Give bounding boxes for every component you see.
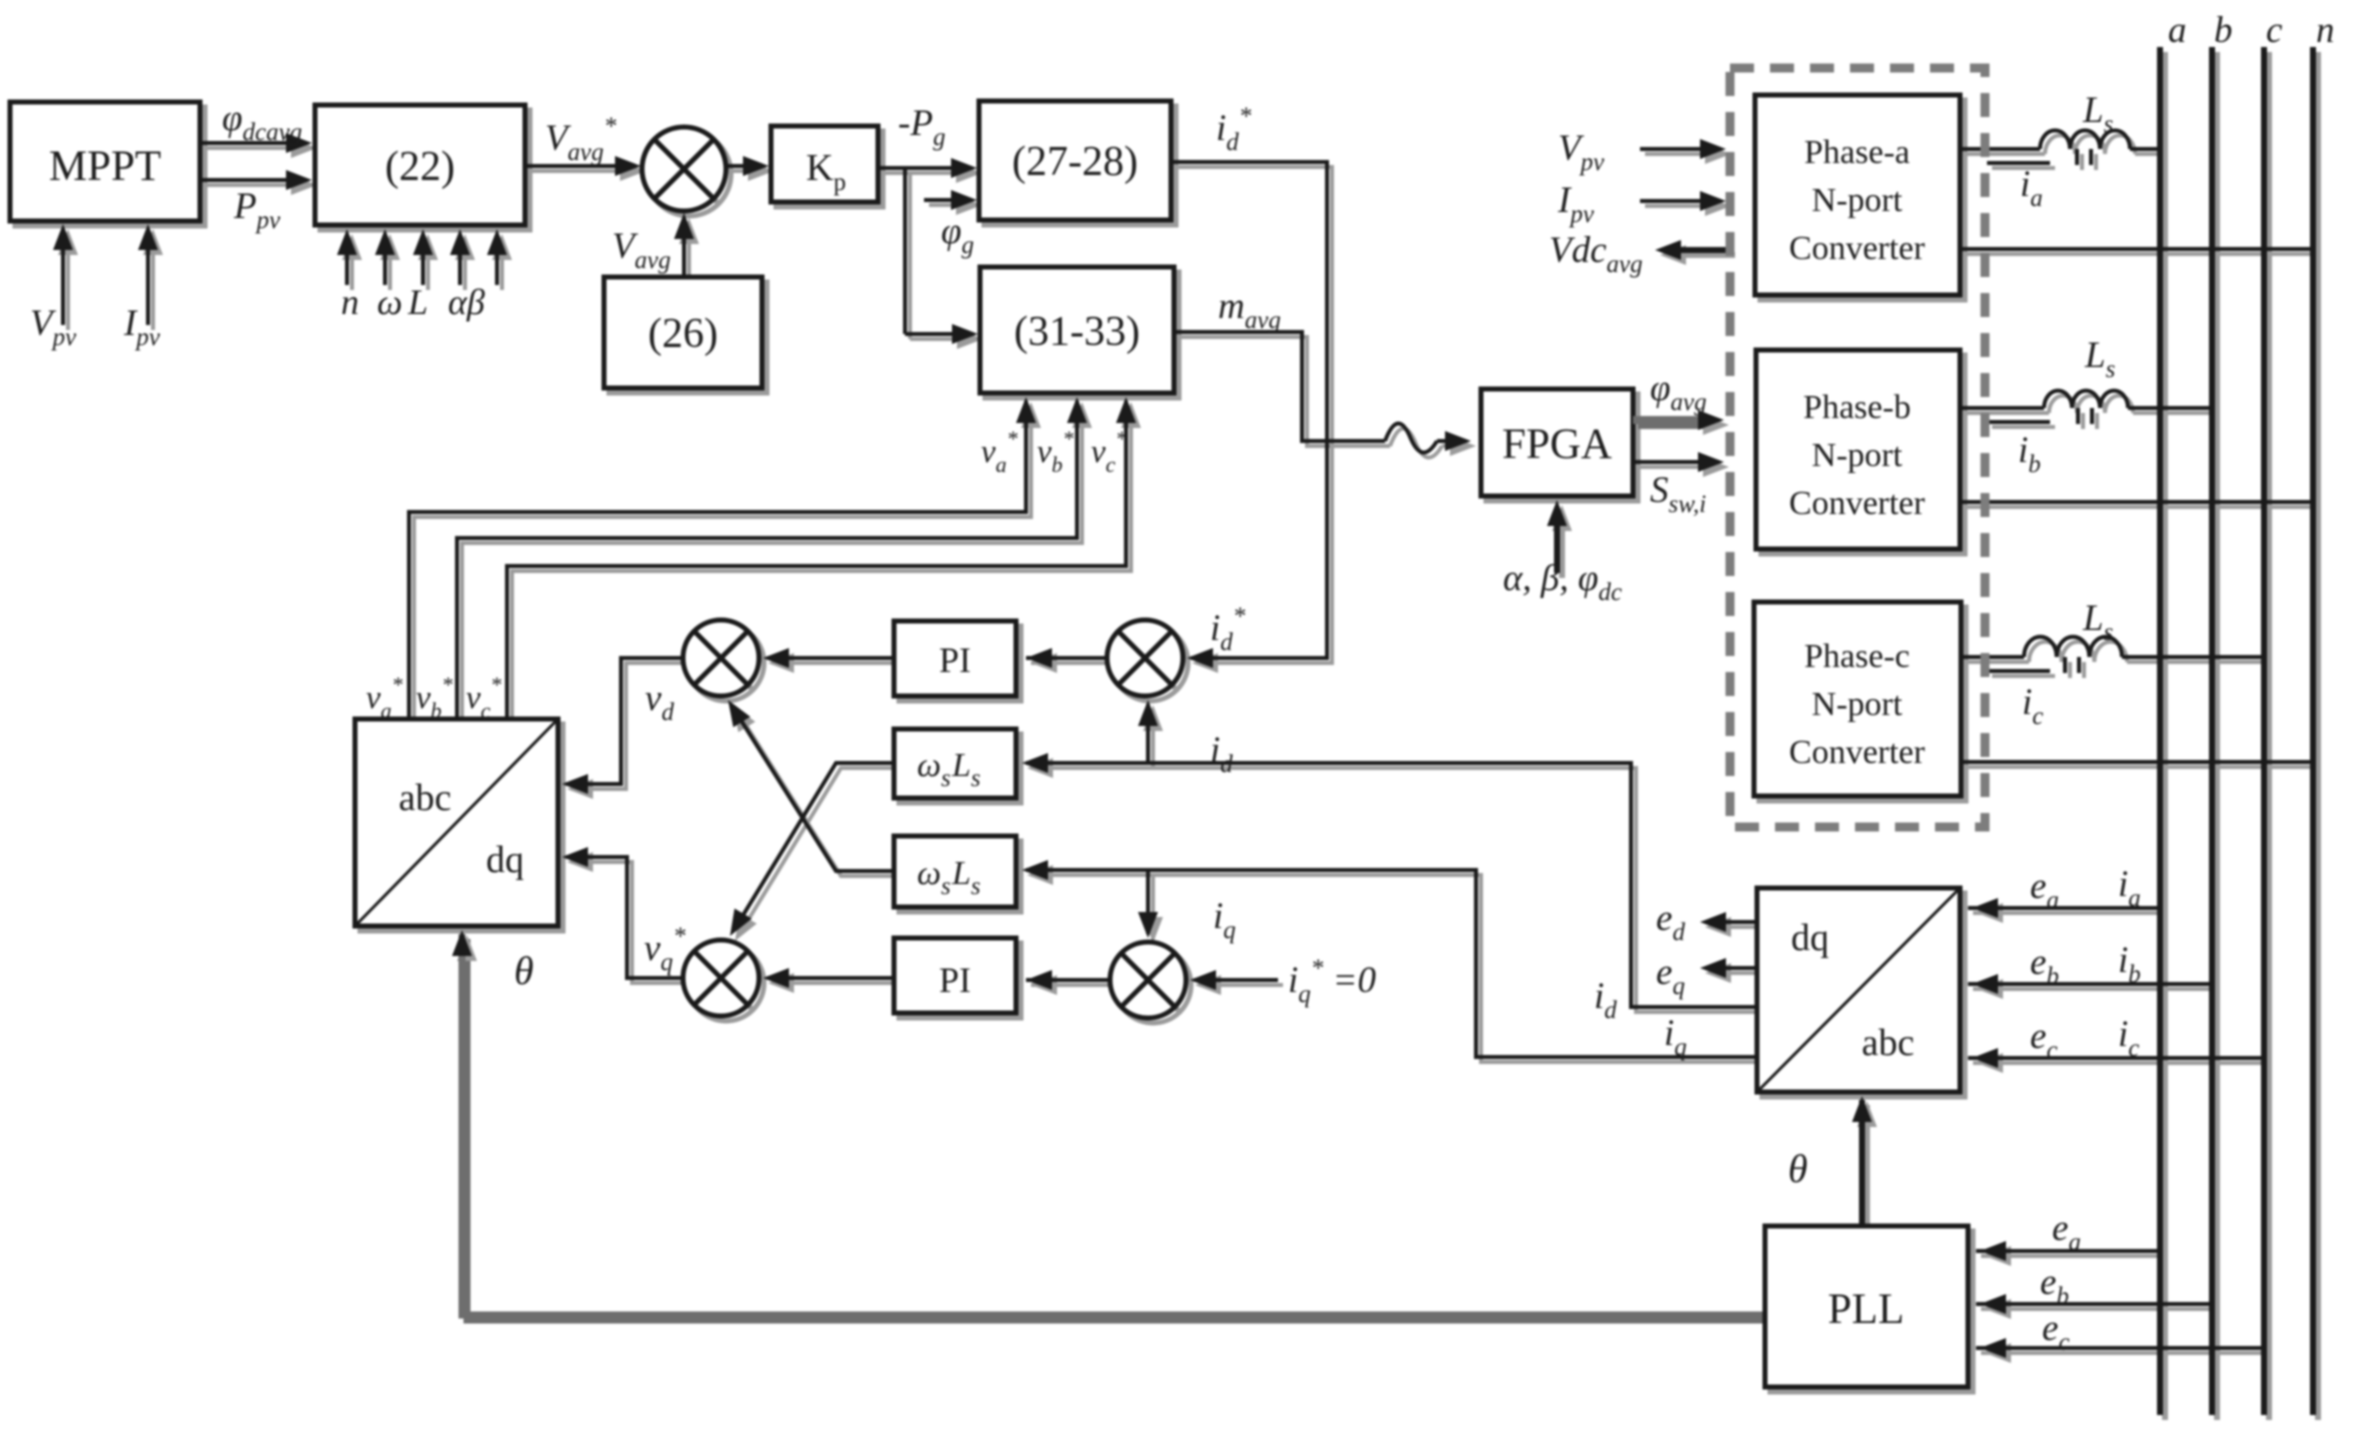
svg-text:Phase-c: Phase-c xyxy=(1804,638,1910,675)
svg-text:N-port: N-port xyxy=(1812,437,1903,474)
svg-text:PLL: PLL xyxy=(1828,1286,1904,1333)
svg-text:(27-28): (27-28) xyxy=(1012,139,1138,185)
svg-text:Converter: Converter xyxy=(1789,734,1926,771)
svg-text:L: L xyxy=(407,282,428,322)
svg-text:Phase-b: Phase-b xyxy=(1803,389,1911,426)
svg-text:a: a xyxy=(2168,10,2187,51)
svg-text:dq: dq xyxy=(486,839,524,881)
svg-text:Phase-a: Phase-a xyxy=(1804,134,1910,171)
svg-text:MPPT: MPPT xyxy=(49,143,161,190)
svg-text:b: b xyxy=(2214,10,2233,51)
svg-text:dq: dq xyxy=(1791,917,1829,959)
svg-text:abc: abc xyxy=(1862,1022,1915,1064)
svg-text:θ: θ xyxy=(514,948,534,993)
svg-text:(26): (26) xyxy=(648,311,718,357)
svg-text:c: c xyxy=(2266,10,2283,51)
svg-text:(22): (22) xyxy=(385,144,455,190)
svg-text:n: n xyxy=(2316,10,2335,51)
svg-text:θ: θ xyxy=(1788,1146,1808,1191)
svg-text:(31-33): (31-33) xyxy=(1014,309,1140,355)
svg-text:PI: PI xyxy=(939,640,971,680)
svg-text:ω: ω xyxy=(377,282,402,322)
svg-text:PI: PI xyxy=(939,960,971,1000)
svg-text:Converter: Converter xyxy=(1789,230,1926,267)
svg-text:FPGA: FPGA xyxy=(1502,421,1612,468)
svg-text:N-port: N-port xyxy=(1812,182,1903,219)
svg-text:n: n xyxy=(341,282,359,322)
svg-text:N-port: N-port xyxy=(1812,686,1903,723)
svg-text:αβ: αβ xyxy=(448,282,485,322)
svg-text:abc: abc xyxy=(399,777,452,819)
svg-text:Converter: Converter xyxy=(1789,485,1926,522)
